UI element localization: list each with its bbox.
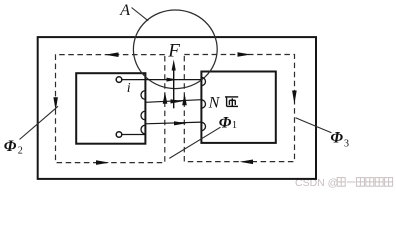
svg-text:3: 3 [344,139,349,150]
svg-text:2: 2 [18,146,23,157]
svg-text:i: i [127,81,131,96]
svg-text:F: F [167,41,180,62]
svg-text:N: N [208,94,221,111]
svg-text:1: 1 [232,120,237,131]
svg-text:Φ: Φ [4,138,17,155]
svg-text:Φ: Φ [219,115,232,132]
svg-text:Φ: Φ [330,129,343,146]
svg-text:A: A [119,2,130,19]
